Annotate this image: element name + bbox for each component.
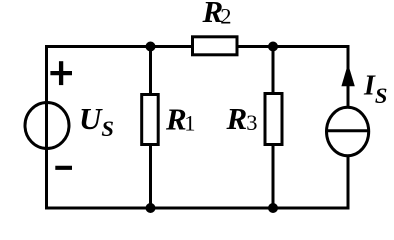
- node A (top left junction): [146, 42, 156, 52]
- wire: right branch upper segment: [347, 45, 350, 107]
- resistor R3 (vertical box): [265, 94, 282, 145]
- plus polarity mark: [50, 61, 72, 85]
- node B (top right junction): [268, 42, 278, 52]
- svg-text:US: US: [79, 101, 114, 141]
- wire: left branch vertical (through voltage source): [45, 45, 48, 210]
- current source I_S (circle with bar): [327, 107, 369, 155]
- wire: R3 branch lower segment: [272, 145, 275, 208]
- wire: R3 branch upper segment: [272, 47, 275, 95]
- resistor R2 (horizontal box): [193, 37, 238, 55]
- wire: bottom rail: [45, 207, 350, 210]
- svg-text:R3: R3: [226, 101, 258, 136]
- svg-text:IS: IS: [363, 70, 387, 108]
- wire: right branch lower segment: [347, 156, 350, 210]
- resistor R1 (vertical box): [142, 95, 159, 145]
- svg-text:R2: R2: [202, 0, 232, 29]
- wire: top rail right segment (R2 to right corner): [238, 45, 349, 48]
- wire: top rail left segment (node to R2): [47, 45, 193, 48]
- current source arrow: [341, 64, 354, 87]
- voltage source U_S (circle): [25, 103, 69, 149]
- wire: R1 branch upper segment: [149, 47, 152, 95]
- node D (bottom right junction): [268, 203, 278, 213]
- svg-text:R1: R1: [165, 101, 195, 136]
- wire: R1 branch lower segment: [149, 145, 152, 208]
- node C (bottom left junction): [146, 203, 156, 213]
- minus polarity mark: [55, 166, 72, 170]
